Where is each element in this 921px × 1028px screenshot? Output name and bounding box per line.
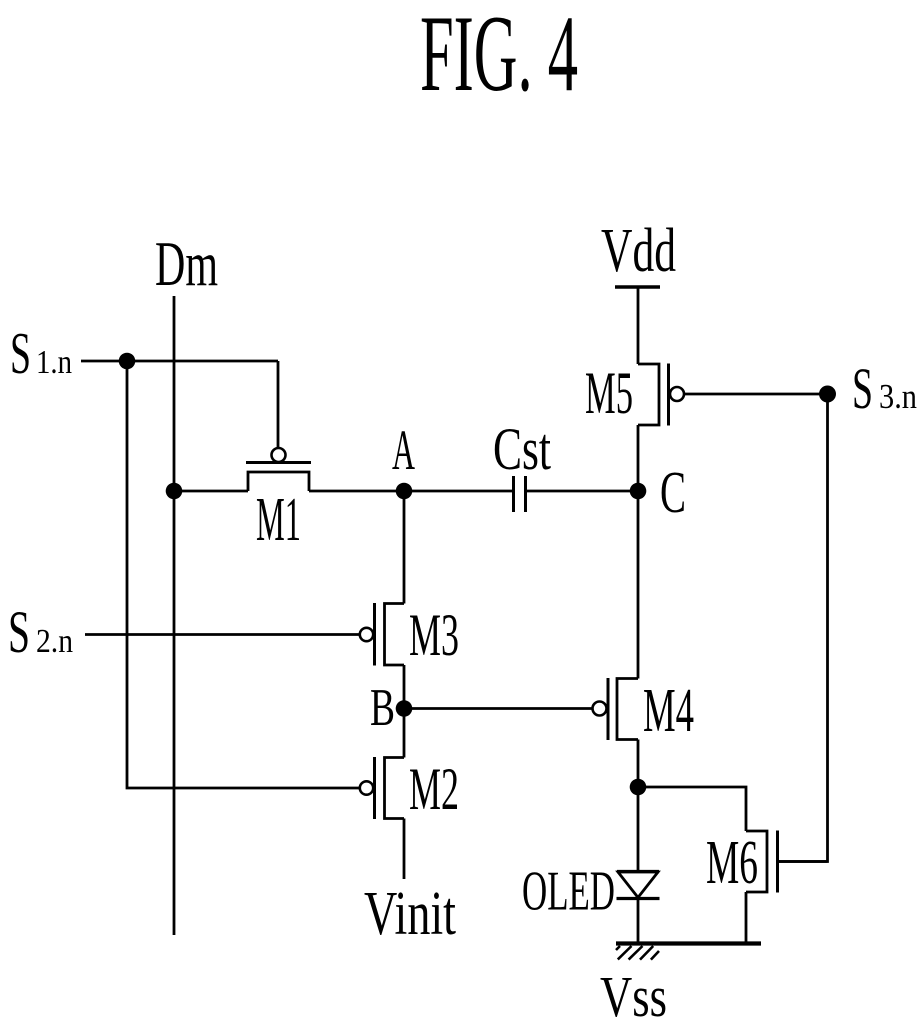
ground hatching — [616, 946, 620, 950]
svg-text:1.n: 1.n — [36, 344, 72, 381]
svg-text:M2: M2 — [409, 756, 459, 822]
transistor M2 gate bar — [373, 757, 376, 819]
svg-text:S: S — [8, 599, 30, 665]
node junction Dm row A — [166, 483, 183, 500]
wire data line Dm vertical — [173, 296, 176, 935]
svg-text:FIG. 4: FIG. 4 — [420, 0, 578, 114]
svg-text:A: A — [392, 419, 415, 482]
power rail Vdd bar — [615, 285, 660, 288]
wire M3 to M2 column — [403, 665, 406, 758]
wire A drop to M3 — [403, 491, 406, 604]
node junction S1.n — [119, 353, 136, 370]
transistor M6 channel staple — [746, 831, 767, 892]
wire M6 gate — [779, 860, 828, 863]
svg-text:Vinit: Vinit — [364, 880, 456, 948]
transistor M1 bubble — [272, 448, 286, 462]
transistor M4 channel staple — [617, 679, 638, 740]
ground bar Vss — [616, 941, 761, 945]
transistor M5 bubble — [670, 387, 684, 401]
wire Vinit stub — [403, 819, 406, 880]
wire row A middle — [309, 490, 514, 493]
svg-text:Vss: Vss — [600, 964, 667, 1028]
node junction S3.n — [819, 386, 836, 403]
transistor M4 bubble — [593, 702, 607, 716]
wire M5 to node C — [637, 425, 640, 679]
svg-text:S: S — [10, 320, 31, 386]
transistor M5 channel staple — [638, 364, 659, 425]
svg-text:Cst: Cst — [493, 416, 551, 482]
diode OLED anode bar — [617, 870, 659, 873]
svg-text:M1: M1 — [256, 486, 301, 554]
transistor M1 gate wire — [277, 361, 280, 448]
wire Vdd to M5 — [637, 287, 640, 364]
diode OLED cathode bar — [617, 897, 660, 900]
transistor M2 bubble — [360, 781, 373, 794]
wire S1.n drop to M2 gate — [127, 361, 359, 788]
node A — [396, 483, 413, 500]
transistor M3 bubble — [360, 628, 373, 641]
capacitor Cst right plate — [524, 476, 527, 512]
svg-text:3.n: 3.n — [879, 377, 917, 416]
svg-text:S: S — [852, 356, 873, 421]
wire S1.n horizontal — [81, 360, 278, 363]
wire OLED to ground — [637, 899, 640, 944]
transistor M5 gate bar — [667, 364, 670, 426]
transistor M6 gate bar — [776, 831, 779, 893]
wire M6 to ground — [745, 892, 748, 944]
wire M5 gate to S3.n — [684, 393, 828, 396]
transistor M1 gate bar — [246, 461, 311, 464]
wire S3.n drop to M6 gate — [779, 394, 828, 862]
wire node B to M4 gate — [404, 707, 593, 710]
wire junction to M6 — [638, 787, 746, 831]
svg-text:2.n: 2.n — [36, 623, 73, 660]
diode OLED triangle — [618, 872, 658, 898]
wire M4 to OLED — [637, 740, 640, 872]
svg-text:M3: M3 — [409, 602, 459, 668]
svg-text:OLED: OLED — [522, 861, 615, 923]
svg-text:C: C — [660, 459, 686, 525]
transistor M2 channel staple — [385, 758, 405, 819]
node junction M4/M6 — [630, 779, 647, 796]
svg-text:M6: M6 — [706, 829, 758, 897]
node B — [396, 700, 413, 717]
node C — [630, 483, 647, 500]
svg-text:Vdd: Vdd — [601, 217, 676, 285]
wire row A left — [174, 490, 248, 493]
capacitor Cst left plate — [512, 476, 515, 512]
transistor M1 channel staple — [248, 472, 309, 491]
svg-text:Dm: Dm — [155, 228, 218, 299]
transistor M4 gate bar — [607, 678, 610, 740]
transistor M3 channel staple — [385, 604, 405, 666]
svg-text:B: B — [370, 679, 395, 737]
svg-text:M4: M4 — [643, 677, 694, 745]
wire row A right of cap — [526, 490, 639, 493]
transistor M3 gate bar — [373, 603, 376, 666]
wire S2.n to M3 gate — [85, 633, 360, 636]
svg-text:M5: M5 — [585, 360, 633, 426]
